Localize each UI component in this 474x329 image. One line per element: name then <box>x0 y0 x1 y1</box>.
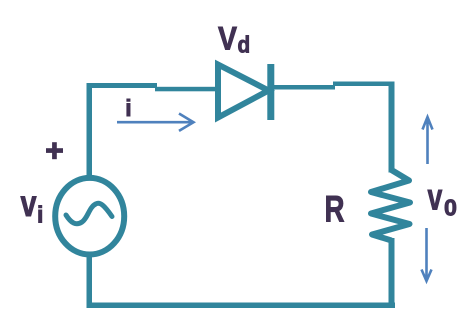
diode D1 triangle <box>218 65 269 118</box>
label v0 <box>428 176 443 217</box>
resistor R zigzag <box>371 170 410 241</box>
label i current <box>125 95 131 121</box>
diode D1 cathode bar <box>267 64 274 120</box>
svg-text:v: v <box>21 183 38 224</box>
AC source V1 circle <box>55 178 124 255</box>
svg-text:0: 0 <box>444 195 457 221</box>
svg-text:i: i <box>125 95 131 121</box>
current arrow i <box>117 114 194 131</box>
svg-text:R: R <box>325 187 345 229</box>
svg-text:V: V <box>218 22 237 57</box>
label Vd <box>218 22 237 57</box>
wire top-left horizontal segment <box>88 83 157 88</box>
AC source V1 sine wave <box>66 203 112 224</box>
svg-text:i: i <box>37 202 43 228</box>
v0 down arrow <box>422 228 432 281</box>
wire diode cathode to right <box>274 85 335 90</box>
v0 up arrow <box>423 117 433 164</box>
wire top-right horizontal <box>333 82 395 87</box>
wire bottom horizontal <box>87 303 396 309</box>
label vi <box>21 183 38 224</box>
wire left vertical lower <box>87 256 93 305</box>
wire right vertical lower <box>389 238 395 305</box>
svg-text:d: d <box>238 32 251 58</box>
label plus sign <box>46 142 63 159</box>
wire right vertical upper <box>389 82 395 173</box>
label R <box>325 187 345 229</box>
wire top horizontal segment to diode anode <box>155 87 217 92</box>
wire left vertical upper <box>87 83 93 177</box>
svg-text:v: v <box>428 176 443 217</box>
